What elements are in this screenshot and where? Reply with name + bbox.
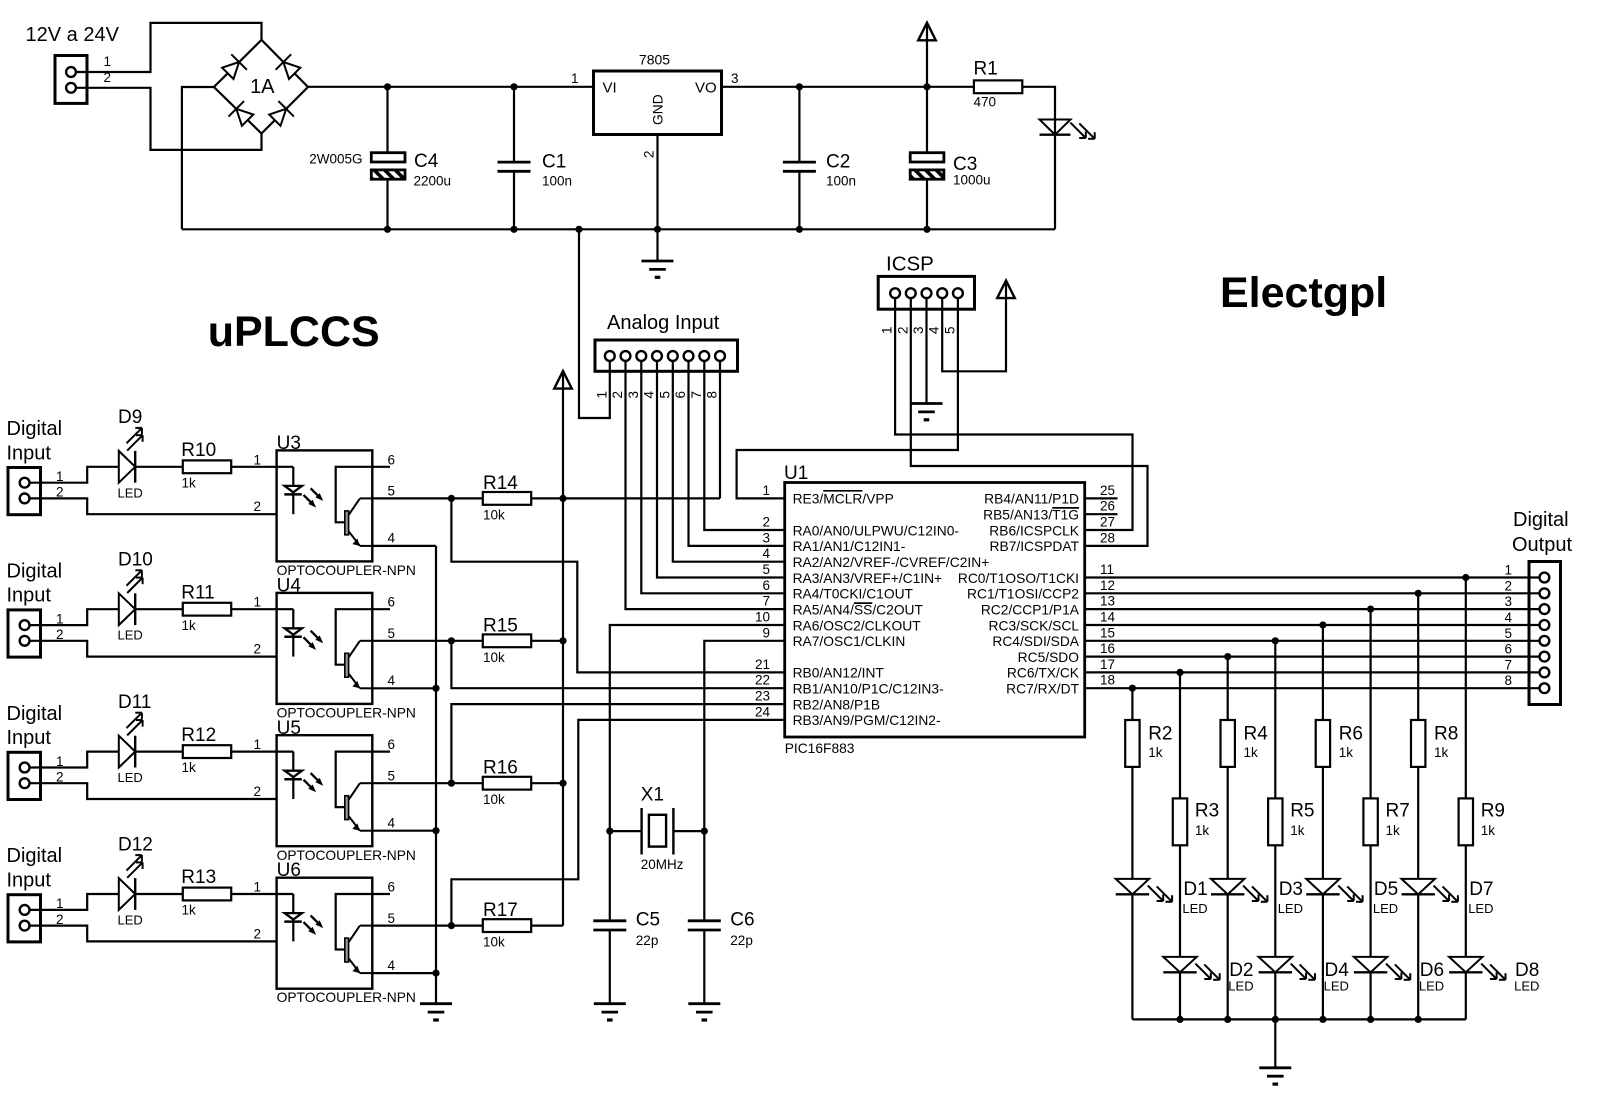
svg-text:Digital: Digital bbox=[7, 418, 63, 440]
svg-text:D10: D10 bbox=[118, 550, 153, 571]
svg-text:Input: Input bbox=[7, 442, 52, 464]
wire R to +5V bbox=[531, 640, 563, 642]
svg-text:LED: LED bbox=[1373, 901, 1398, 916]
+5V power arrow at ICSP bbox=[997, 281, 1015, 299]
svg-text:Digital: Digital bbox=[7, 703, 63, 725]
wire resistor to LED bbox=[1179, 845, 1181, 957]
svg-text:5: 5 bbox=[762, 562, 770, 577]
svg-text:uPLCCS: uPLCCS bbox=[208, 308, 380, 356]
svg-text:5: 5 bbox=[657, 391, 672, 399]
wire LED to resistor bbox=[135, 608, 183, 610]
svg-text:RC7/RX/DT: RC7/RX/DT bbox=[1006, 682, 1079, 697]
svg-text:U3: U3 bbox=[277, 433, 301, 454]
ground rail (bottom) bbox=[182, 228, 1055, 230]
svg-text:17: 17 bbox=[1100, 657, 1115, 672]
wire analog pin1 to ground rail bbox=[579, 229, 610, 418]
wire ICSP pin1 to U1 RB6/ICSPCLK (pin 27) bbox=[895, 298, 1132, 530]
svg-text:12: 12 bbox=[1100, 578, 1115, 593]
svg-text:R9: R9 bbox=[1481, 801, 1505, 822]
opto internal transistor bbox=[336, 467, 373, 523]
svg-text:4: 4 bbox=[388, 816, 396, 831]
optocoupler U3 bbox=[277, 450, 373, 561]
resistor R15 bbox=[483, 634, 531, 647]
svg-text:Analog Input: Analog Input bbox=[607, 312, 720, 334]
junction dot bbox=[384, 226, 391, 233]
opto internal LED bbox=[277, 750, 294, 752]
svg-text:27: 27 bbox=[1100, 515, 1115, 530]
wire U1 RA7/OSC1 (pin 9) to crystal bbox=[704, 641, 784, 831]
ground symbol at C6 bbox=[688, 1002, 720, 1005]
svg-text:28: 28 bbox=[1100, 530, 1115, 545]
svg-text:RC4/SDI/SDA: RC4/SDI/SDA bbox=[992, 634, 1079, 649]
junction dot bbox=[923, 226, 930, 233]
wire ICSP pin4 to +5V arrow bbox=[942, 281, 1006, 372]
capacitor C4 bbox=[386, 87, 388, 153]
svg-text:Electgpl: Electgpl bbox=[1220, 269, 1387, 317]
LED D8 bbox=[1449, 957, 1482, 972]
wire J1 pin2 to bridge AC2 bbox=[76, 88, 262, 150]
junction dot bbox=[1367, 606, 1374, 613]
resistor R5 bbox=[1268, 798, 1282, 845]
svg-text:25: 25 bbox=[1100, 483, 1115, 498]
wire analog pin5 to U1 RA (pin 4) bbox=[673, 361, 785, 562]
wire bridge output to 7805 VI (VIN rail) bbox=[308, 86, 594, 88]
capacitor C2 bbox=[798, 87, 800, 162]
svg-text:3: 3 bbox=[731, 71, 739, 86]
svg-text:1: 1 bbox=[253, 880, 261, 895]
junction dot bbox=[796, 83, 803, 90]
capacitor C1 bbox=[513, 87, 515, 162]
svg-text:RC2/CCP1/P1A: RC2/CCP1/P1A bbox=[981, 602, 1080, 617]
opto internal LED bbox=[277, 608, 294, 610]
optocoupler U5 bbox=[277, 735, 373, 846]
svg-text:RA6/OSC2/CLKOUT: RA6/OSC2/CLKOUT bbox=[793, 618, 922, 633]
svg-text:3: 3 bbox=[1504, 594, 1512, 609]
svg-text:1: 1 bbox=[594, 391, 609, 399]
svg-text:1k: 1k bbox=[182, 475, 197, 490]
wire connector pin1 to LED anode bbox=[30, 467, 119, 483]
wire opto pin 4 (emitter) to ground bus bbox=[372, 830, 436, 832]
junction dot bbox=[1224, 653, 1231, 660]
overline MCLR bbox=[823, 490, 862, 492]
wire U1 pin 18 to output pin 8 bbox=[1085, 687, 1540, 689]
wire U1 pin 16 to output pin 6 bbox=[1085, 655, 1540, 657]
wire U4 collector to U1 RB1 (pin 22) bbox=[451, 641, 784, 688]
svg-text:C6: C6 bbox=[730, 910, 754, 931]
wire output column 5 bbox=[1322, 625, 1324, 720]
wire resistor to LED bbox=[1369, 845, 1371, 957]
junction dot bbox=[1462, 574, 1469, 581]
junction dot bbox=[448, 495, 455, 502]
resistor R7 bbox=[1363, 798, 1377, 845]
svg-text:RC3/SCK/SCL: RC3/SCK/SCL bbox=[989, 618, 1080, 633]
svg-text:5: 5 bbox=[942, 326, 957, 334]
optocoupler U6 bbox=[277, 878, 373, 989]
wire connector pin1 to LED anode bbox=[30, 752, 119, 768]
svg-text:R6: R6 bbox=[1339, 724, 1363, 745]
LED D10 bbox=[119, 593, 135, 625]
svg-text:D11: D11 bbox=[118, 692, 151, 713]
wire R to +5V bbox=[531, 924, 563, 926]
junction dot bbox=[1415, 1016, 1422, 1023]
connector J1 12-24V input bbox=[55, 56, 87, 104]
svg-text:3: 3 bbox=[911, 326, 926, 334]
wire LED to cathode rail bbox=[1322, 894, 1324, 1019]
svg-text:R8: R8 bbox=[1434, 724, 1458, 745]
svg-text:1: 1 bbox=[880, 326, 895, 334]
wire U6 collector to U1 RB3 (pin 24) bbox=[451, 720, 784, 926]
svg-text:6: 6 bbox=[673, 391, 688, 399]
svg-text:R12: R12 bbox=[181, 725, 216, 746]
wire ICSP pin3 to ground bbox=[925, 298, 927, 403]
connector digital input 1 bbox=[8, 468, 41, 515]
junction dot bbox=[1319, 621, 1326, 628]
LED D3 bbox=[1211, 879, 1244, 894]
junction dot bbox=[1272, 1016, 1279, 1023]
junction dot bbox=[575, 226, 582, 233]
wire opto pin 4 (emitter) to ground bus bbox=[372, 545, 436, 547]
wire opto pin 4 (emitter) to ground bus bbox=[372, 687, 436, 689]
junction dot bbox=[448, 637, 455, 644]
LED D11 bbox=[119, 736, 135, 768]
svg-text:GND: GND bbox=[651, 94, 666, 125]
svg-text:1: 1 bbox=[762, 483, 770, 498]
svg-text:D12: D12 bbox=[118, 834, 153, 855]
svg-text:R5: R5 bbox=[1290, 801, 1314, 822]
wire resistor to LED bbox=[1131, 767, 1133, 879]
LED D1 bbox=[1116, 879, 1149, 894]
bridge diode upper-left bbox=[222, 62, 239, 79]
wire opto pin 5 (collector) out bbox=[372, 924, 451, 926]
svg-text:2W005G: 2W005G bbox=[309, 151, 362, 166]
wire analog pin7 to U1 RA (pin 2) bbox=[704, 361, 784, 531]
resistor R14 bbox=[483, 492, 531, 505]
wire LED to cathode rail bbox=[1179, 972, 1181, 1019]
svg-text:R7: R7 bbox=[1386, 801, 1410, 822]
stub opto pin 6 bbox=[372, 750, 390, 752]
svg-text:R11: R11 bbox=[181, 582, 214, 603]
svg-text:22: 22 bbox=[755, 673, 770, 688]
overline SS bbox=[854, 602, 872, 604]
wire resistor to LED bbox=[1227, 767, 1229, 879]
LED cathode rail bbox=[1132, 1018, 1465, 1020]
wire opto collector to R bbox=[451, 924, 482, 926]
svg-text:VI: VI bbox=[603, 80, 617, 97]
connector J4 Digital Output bbox=[1529, 562, 1561, 705]
ground symbol at ICSP bbox=[911, 402, 943, 405]
svg-text:VO: VO bbox=[695, 80, 717, 97]
svg-text:8: 8 bbox=[1504, 673, 1512, 688]
bridge diode lower-right bbox=[269, 109, 286, 126]
svg-text:4: 4 bbox=[388, 531, 396, 546]
svg-text:2: 2 bbox=[253, 926, 261, 941]
svg-text:5: 5 bbox=[388, 484, 396, 499]
junction dot bbox=[559, 780, 566, 787]
junction dot bbox=[1176, 1016, 1183, 1023]
svg-text:6: 6 bbox=[388, 452, 396, 467]
resistor R6 bbox=[1316, 720, 1330, 767]
svg-text:1: 1 bbox=[253, 595, 261, 610]
svg-text:10k: 10k bbox=[483, 507, 505, 522]
svg-text:9: 9 bbox=[762, 625, 770, 640]
wire opto pin 4 (emitter) to ground bus bbox=[372, 972, 436, 974]
resistor R13 bbox=[183, 888, 231, 901]
junction dot bbox=[432, 827, 439, 834]
svg-text:1k: 1k bbox=[1195, 823, 1210, 838]
capacitor C5 bbox=[609, 831, 611, 921]
svg-text:U1: U1 bbox=[784, 463, 808, 484]
svg-text:1: 1 bbox=[253, 737, 261, 752]
svg-text:1: 1 bbox=[253, 452, 261, 467]
svg-text:6: 6 bbox=[388, 737, 396, 752]
svg-text:26: 26 bbox=[1100, 499, 1115, 514]
resistor R10 bbox=[183, 460, 231, 473]
wire connector pin2 to opto pin2 bbox=[30, 926, 277, 942]
emitter ground bus bbox=[435, 546, 437, 1004]
junction dot bbox=[448, 922, 455, 929]
svg-text:5: 5 bbox=[388, 626, 396, 641]
resistor R12 bbox=[183, 745, 231, 758]
wire analog pin6 to U1 RA (pin 3) bbox=[689, 361, 785, 546]
wire resistor to LED bbox=[1322, 767, 1324, 879]
svg-text:8: 8 bbox=[705, 391, 720, 399]
svg-text:1k: 1k bbox=[182, 618, 197, 633]
crystal X1 bbox=[610, 830, 642, 832]
wire output column 7 bbox=[1417, 593, 1419, 720]
wire LED to resistor bbox=[135, 893, 183, 895]
svg-text:2200u: 2200u bbox=[414, 173, 452, 188]
wire resistor to opto pin1 bbox=[231, 893, 276, 895]
svg-text:Input: Input bbox=[7, 585, 52, 607]
svg-text:R2: R2 bbox=[1148, 724, 1172, 745]
svg-text:1k: 1k bbox=[1481, 823, 1496, 838]
svg-text:R13: R13 bbox=[181, 867, 216, 888]
junction dot bbox=[432, 970, 439, 977]
wire R to +5V bbox=[531, 497, 563, 499]
svg-text:24: 24 bbox=[755, 704, 771, 719]
wire LED to cathode rail bbox=[1227, 894, 1229, 1019]
stub U1 pin 25 bbox=[1085, 497, 1118, 499]
wire ICSP pin2 to U1 RB7/ICSPDAT (pin 28) bbox=[911, 298, 1148, 546]
regulator U2 7805 bbox=[594, 71, 722, 135]
svg-text:LED: LED bbox=[1468, 901, 1493, 916]
junction dot bbox=[448, 780, 455, 787]
svg-text:1k: 1k bbox=[1244, 745, 1259, 760]
wire resistor to opto pin1 bbox=[231, 608, 276, 610]
wire connector pin2 to opto pin2 bbox=[30, 641, 277, 657]
wire output column 2 bbox=[1179, 672, 1181, 798]
svg-text:R15: R15 bbox=[483, 615, 518, 636]
wire U1 pin 17 to output pin 7 bbox=[1085, 671, 1540, 673]
wire 7805 VO to R1 (+5V rail) bbox=[722, 86, 974, 88]
svg-text:U4: U4 bbox=[277, 575, 302, 596]
junction dot bbox=[1367, 1016, 1374, 1023]
svg-text:5: 5 bbox=[1504, 626, 1512, 641]
svg-text:R17: R17 bbox=[483, 900, 518, 921]
svg-text:1: 1 bbox=[103, 54, 111, 69]
capacitor C3 bbox=[926, 87, 928, 153]
svg-text:18: 18 bbox=[1100, 673, 1115, 688]
wire opto pin 5 (collector) out bbox=[372, 640, 451, 642]
svg-text:6: 6 bbox=[1504, 642, 1512, 657]
svg-text:X1: X1 bbox=[641, 785, 664, 806]
svg-text:10: 10 bbox=[755, 610, 770, 625]
wire resistor to LED bbox=[1417, 767, 1419, 879]
ground symbol below 7805 bbox=[656, 229, 658, 261]
svg-text:Output: Output bbox=[1512, 534, 1572, 556]
svg-text:Digital: Digital bbox=[1513, 509, 1569, 531]
wire bridge left corner to ground rail bbox=[182, 87, 214, 229]
svg-text:RC0/T1OSO/T1CKI: RC0/T1OSO/T1CKI bbox=[958, 571, 1079, 586]
LED D9 bbox=[119, 451, 135, 483]
svg-text:7805: 7805 bbox=[639, 52, 670, 68]
wire U1 RA6/OSC2 (pin 10) to crystal bbox=[610, 625, 785, 831]
svg-text:D9: D9 bbox=[118, 407, 142, 428]
wire output column 8 bbox=[1465, 578, 1467, 799]
wire U1 pin 15 to output pin 5 bbox=[1085, 640, 1540, 642]
wire resistor to LED bbox=[1465, 845, 1467, 957]
wire connector pin1 to LED anode bbox=[30, 894, 119, 910]
svg-text:4: 4 bbox=[1504, 610, 1512, 625]
resistor R17 bbox=[483, 919, 531, 932]
svg-text:7: 7 bbox=[1504, 657, 1512, 672]
junction dot bbox=[796, 226, 803, 233]
svg-text:5: 5 bbox=[388, 911, 396, 926]
wire LED to cathode rail bbox=[1417, 894, 1419, 1019]
svg-text:1k: 1k bbox=[1434, 745, 1449, 760]
wire resistor to opto pin1 bbox=[231, 750, 276, 752]
LED D7 bbox=[1402, 879, 1435, 894]
wire connector pin2 to opto pin2 bbox=[30, 783, 277, 799]
svg-text:100n: 100n bbox=[542, 173, 572, 188]
svg-text:R16: R16 bbox=[483, 758, 518, 779]
svg-text:4: 4 bbox=[762, 546, 770, 561]
svg-text:6: 6 bbox=[388, 595, 396, 610]
opto internal LED bbox=[277, 893, 294, 895]
svg-text:LED: LED bbox=[118, 913, 143, 928]
svg-text:RC5/SDO: RC5/SDO bbox=[1018, 650, 1080, 665]
junction dot bbox=[654, 226, 661, 233]
junction dot bbox=[559, 495, 566, 502]
ground symbol at emitter bus bbox=[420, 1002, 452, 1005]
wire output column 1 bbox=[1131, 688, 1133, 720]
junction dot bbox=[559, 637, 566, 644]
wire opto pin 5 (collector) out bbox=[372, 782, 451, 784]
svg-text:2: 2 bbox=[253, 499, 261, 514]
svg-text:RA3/AN3/VREF+/C1IN+: RA3/AN3/VREF+/C1IN+ bbox=[793, 571, 943, 586]
svg-text:Input: Input bbox=[7, 870, 52, 892]
microcontroller U1 PIC16F883 bbox=[785, 483, 1085, 738]
svg-text:100n: 100n bbox=[826, 173, 856, 188]
connector digital input 4 bbox=[8, 895, 41, 942]
svg-text:RB1/AN10/P1C/C12IN3-: RB1/AN10/P1C/C12IN3- bbox=[793, 682, 944, 697]
resistor R8 bbox=[1411, 720, 1425, 767]
svg-text:7: 7 bbox=[689, 391, 704, 399]
opto internal transistor bbox=[336, 894, 373, 950]
wire output column 4 bbox=[1274, 641, 1276, 799]
wire analog pin8 to +5V row bbox=[719, 361, 721, 499]
svg-text:2: 2 bbox=[1504, 578, 1512, 593]
wire connector pin2 to opto pin2 bbox=[30, 498, 277, 514]
wire output column 3 bbox=[1227, 657, 1229, 720]
bridge diode lower-left bbox=[236, 109, 253, 126]
svg-text:LED: LED bbox=[1182, 901, 1207, 916]
stub U1 pin 26 bbox=[1085, 513, 1118, 515]
opto internal LED bbox=[277, 466, 294, 468]
wire R1 to power LED bbox=[1022, 87, 1055, 230]
wire U1 pin 12 to output pin 2 bbox=[1085, 592, 1540, 594]
svg-text:21: 21 bbox=[755, 657, 770, 672]
svg-text:3: 3 bbox=[762, 530, 770, 545]
junction dot bbox=[1319, 1016, 1326, 1023]
wire LED to cathode rail bbox=[1274, 972, 1276, 1019]
resistor R2 bbox=[1125, 720, 1139, 767]
svg-text:R4: R4 bbox=[1244, 724, 1269, 745]
wire LED to resistor bbox=[135, 466, 183, 468]
svg-text:OPTOCOUPLER-NPN: OPTOCOUPLER-NPN bbox=[277, 990, 416, 1005]
svg-text:RC6/TX/CK: RC6/TX/CK bbox=[1007, 666, 1080, 681]
junction dot bbox=[1415, 590, 1422, 597]
svg-text:6: 6 bbox=[762, 578, 770, 593]
junction dot bbox=[1224, 1016, 1231, 1023]
resistor R3 bbox=[1173, 798, 1187, 845]
svg-text:Digital: Digital bbox=[7, 845, 63, 867]
LED D12 bbox=[119, 878, 135, 910]
wire connector pin1 to LED anode bbox=[30, 609, 119, 625]
svg-text:LED: LED bbox=[118, 628, 143, 643]
svg-text:7: 7 bbox=[762, 594, 770, 609]
svg-text:6: 6 bbox=[388, 880, 396, 895]
svg-text:4: 4 bbox=[388, 958, 396, 973]
wire opto collector to R bbox=[451, 782, 482, 784]
svg-text:1k: 1k bbox=[1148, 745, 1163, 760]
svg-text:U6: U6 bbox=[277, 860, 301, 881]
junction dot bbox=[923, 83, 930, 90]
wire analog pin3 to U1 RA (pin 6) bbox=[641, 361, 784, 594]
svg-text:22p: 22p bbox=[636, 933, 659, 948]
svg-text:C2: C2 bbox=[826, 152, 850, 173]
overline T1G bbox=[1052, 507, 1079, 509]
junction dot bbox=[384, 83, 391, 90]
svg-text:16: 16 bbox=[1100, 641, 1115, 656]
svg-text:RB5/AN13/T1G: RB5/AN13/T1G bbox=[983, 508, 1079, 523]
connector J3 ICSP bbox=[878, 276, 974, 309]
connector digital input 3 bbox=[8, 752, 41, 799]
svg-text:22p: 22p bbox=[730, 933, 753, 948]
svg-text:10k: 10k bbox=[483, 935, 505, 950]
stub opto pin 6 bbox=[372, 466, 390, 468]
svg-text:2: 2 bbox=[642, 150, 657, 158]
svg-text:R10: R10 bbox=[181, 440, 216, 461]
svg-text:D1: D1 bbox=[1183, 879, 1207, 900]
optocoupler U4 bbox=[277, 593, 373, 704]
+5V power arrow above R14 bbox=[554, 371, 572, 389]
junction dot bbox=[701, 828, 708, 835]
wire LED to cathode rail bbox=[1369, 972, 1371, 1019]
svg-text:LED: LED bbox=[1419, 979, 1444, 994]
power LED D13 bbox=[1040, 120, 1071, 135]
svg-text:PIC16F883: PIC16F883 bbox=[785, 741, 855, 756]
svg-text:ICSP: ICSP bbox=[886, 252, 934, 275]
LED D6 bbox=[1354, 957, 1387, 972]
svg-text:LED: LED bbox=[1324, 979, 1349, 994]
svg-text:4: 4 bbox=[642, 391, 657, 399]
ground symbol at C5 bbox=[594, 1002, 626, 1005]
svg-text:RA0/AN0/ULPWU/C12IN0-: RA0/AN0/ULPWU/C12IN0- bbox=[793, 523, 959, 538]
junction dot bbox=[1272, 637, 1279, 644]
svg-text:Digital: Digital bbox=[7, 560, 63, 582]
+5V vertical distribution wire bbox=[562, 371, 564, 926]
